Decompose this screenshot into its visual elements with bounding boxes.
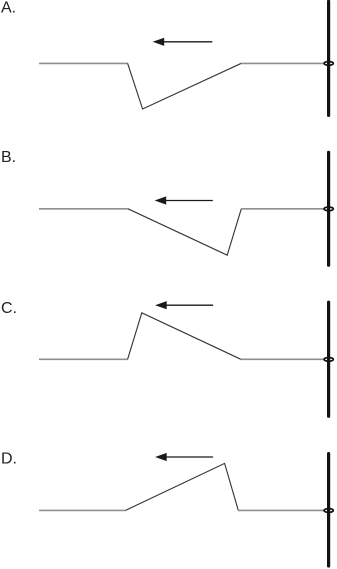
wave pulse D (upward pulse, steep right side) (39, 509, 126, 511)
svg-text:A.: A. (1, 0, 16, 17)
wall B (fixed post) (327, 152, 330, 265)
svg-text:D.: D. (1, 451, 17, 468)
wall D (fixed post) (327, 454, 330, 566)
arrow B (leftward velocity arrow) (155, 196, 213, 204)
arrow A (leftward velocity arrow) (153, 38, 213, 46)
wave pulse C (upward pulse, steep left side) (39, 358, 128, 360)
wave pulse B (downward pulse, steep right side) (39, 208, 128, 210)
svg-text:C.: C. (1, 300, 17, 317)
wall A (fixed post) (327, 1, 330, 115)
wall C (fixed post) (327, 302, 330, 416)
ring B (attachment ring on post) (324, 207, 333, 211)
ring D (attachment ring on post) (324, 509, 333, 513)
svg-text:B.: B. (1, 149, 16, 166)
arrow D (leftward velocity arrow) (155, 453, 213, 461)
arrow C (leftward velocity arrow) (155, 301, 213, 309)
wave pulse A (downward pulse, steep left side) (39, 62, 128, 64)
ring C (attachment ring on post) (324, 358, 333, 362)
ring A (attachment ring on post) (324, 62, 333, 66)
